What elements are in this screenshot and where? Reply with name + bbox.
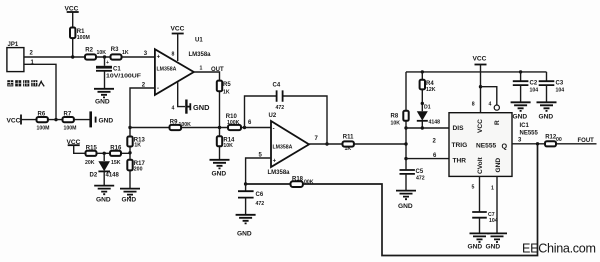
diode D1 4148 [417, 105, 440, 128]
svg-text:-: - [157, 86, 159, 92]
svg-text:C6: C6 [256, 192, 264, 198]
svg-text:104: 104 [556, 88, 565, 94]
svg-text:12K: 12K [426, 87, 436, 93]
resistor R2 [85, 48, 106, 60]
svg-text:472: 472 [256, 201, 265, 207]
svg-text:GND: GND [468, 244, 483, 251]
capacitor C7 103 [472, 212, 498, 233]
wire: Q output to FOUT [512, 143, 597, 145]
node: R5/R14 junction [218, 126, 221, 129]
svg-text:4148: 4148 [106, 173, 120, 179]
svg-text:15K: 15K [111, 160, 121, 166]
svg-text:GND: GND [193, 103, 210, 112]
svg-text:GND: GND [96, 197, 111, 204]
wire: R13/R17 rail [129, 128, 131, 189]
op-amp U1 LM358A [155, 38, 211, 95]
ground (C7) [470, 233, 490, 242]
svg-text:C5: C5 [416, 169, 424, 175]
svg-text:R1: R1 [77, 29, 85, 35]
svg-text:GND: GND [95, 99, 110, 106]
power VCC (555) [473, 56, 487, 65]
svg-text:R6: R6 [38, 111, 46, 117]
svg-text:R18: R18 [292, 177, 304, 183]
svg-text:LM358a: LM358a [189, 52, 212, 58]
node: THR junction on rail [404, 157, 407, 160]
svg-text:C3: C3 [556, 80, 564, 86]
resistor R11 [343, 134, 355, 152]
svg-text:R7: R7 [64, 111, 72, 117]
wire: JP1 pin2 to R2/R3 row to U1 pin3 [24, 56, 155, 58]
wire: mid row pin2 node to U2 pin6 [130, 127, 271, 129]
wire: U1 pin2 to mid row [130, 88, 155, 128]
wire: JP1 pin1 down to R6/R7 row [24, 64, 56, 119]
svg-text:NE555: NE555 [520, 131, 539, 137]
resistor R8 [391, 111, 409, 127]
node: pin5/C6 junction [244, 182, 247, 185]
node: pin1 junction [54, 118, 57, 121]
svg-text:1K: 1K [122, 50, 129, 56]
svg-text:U1: U1 [195, 38, 203, 44]
node: DIS junction on rail [404, 126, 407, 129]
svg-text:Q: Q [502, 142, 508, 151]
svg-text:200: 200 [134, 166, 143, 172]
ground (R17) [120, 189, 140, 204]
power VCC (R15 row) [67, 139, 81, 146]
power VCC (U1 pin 8) [171, 26, 185, 34]
char 入 [39, 81, 45, 87]
svg-text:4: 4 [489, 102, 492, 108]
capacitor C6 472 [238, 184, 264, 215]
svg-text:C1: C1 [113, 67, 121, 73]
diode D2 4148 [90, 153, 120, 185]
svg-text:VCC: VCC [7, 117, 21, 124]
svg-text:00K: 00K [304, 179, 314, 185]
wire: feedback row to bottom loop up to 555 output [246, 144, 538, 256]
wire: C4 feedback loop [245, 96, 328, 144]
capacitor C1 (polarized 10V/100UF) [96, 57, 141, 89]
resistor R9 [170, 120, 192, 131]
wire: VCC to 555 pin8 [480, 65, 482, 113]
resistor R13 [127, 137, 145, 149]
svg-text:GND: GND [398, 203, 413, 210]
svg-text:10K: 10K [391, 121, 401, 127]
wire: VCC rail above 555 [406, 71, 547, 73]
node: C1 junction [103, 55, 106, 58]
svg-text:4148: 4148 [429, 119, 441, 125]
svg-text:472: 472 [276, 105, 285, 111]
capacitor C5 472 [400, 169, 425, 190]
svg-text:00: 00 [556, 137, 562, 143]
svg-text:-: - [273, 127, 275, 133]
svg-text:10V/100UF: 10V/100UF [106, 74, 141, 80]
svg-text:10K: 10K [223, 143, 233, 149]
svg-text:GND: GND [539, 113, 554, 120]
ground (U1 pin4, bar style) [186, 100, 210, 114]
svg-text:C2: C2 [530, 80, 538, 86]
node: reset branch junction [479, 85, 482, 88]
wire: reset branch to pin4 bubble [481, 87, 497, 105]
IC1 NE555 body [449, 113, 512, 177]
svg-text:TRIG: TRIG [452, 142, 468, 149]
svg-text:DIS: DIS [453, 125, 465, 132]
svg-text:GND: GND [495, 158, 502, 173]
node: feedback junction on Q line [536, 142, 539, 145]
IC1 designator labels [520, 123, 539, 137]
svg-text:20K: 20K [85, 160, 95, 166]
NE555 pin 4 bubble [494, 105, 499, 110]
power VCC (bottom left row) [7, 115, 22, 125]
svg-text:LM358a: LM358a [268, 170, 291, 176]
resistor R12 [545, 135, 562, 147]
resistor R6 [37, 111, 50, 131]
wire: DIS line [406, 127, 449, 129]
ground (R14) [210, 160, 230, 178]
ground (C3) [537, 102, 557, 120]
wire: 555 pin5 to C7 [479, 176, 481, 211]
svg-text:R11: R11 [343, 134, 354, 140]
node: R13/R17/R16 junction [128, 151, 131, 154]
ground (pin1) [487, 233, 507, 242]
node: D1/DIS junction [421, 126, 424, 129]
resistor R1 [70, 28, 90, 42]
wire: VCC R6 R7 GND row [21, 119, 90, 121]
svg-text:100K: 100K [227, 120, 240, 126]
svg-text:GND: GND [99, 118, 114, 125]
ground (D2) [94, 186, 114, 204]
resistor R5 [217, 81, 232, 96]
resistor R17 [127, 160, 145, 173]
svg-text:GND: GND [486, 244, 501, 251]
node: rail top junction [128, 126, 131, 129]
ground (C6) [236, 215, 256, 238]
wire: U1 output to R5 rail [194, 72, 220, 128]
svg-text:EEChina.com: EEChina.com [522, 242, 596, 256]
wire: VCC to U1 pin8 [177, 34, 179, 62]
svg-text:D2: D2 [90, 173, 98, 179]
svg-text:C4: C4 [273, 83, 281, 89]
svg-text:8: 8 [172, 52, 175, 58]
svg-text:VCC: VCC [171, 26, 185, 33]
svg-text:104: 104 [530, 88, 539, 94]
svg-text:LM358A: LM358A [157, 67, 177, 73]
resistor R7 [63, 111, 77, 131]
capacitor C2 104 [513, 72, 538, 102]
svg-text:100M: 100M [64, 125, 77, 131]
svg-text:R9: R9 [170, 120, 178, 126]
svg-text:GND: GND [237, 231, 252, 238]
resistor R18 100K [291, 177, 314, 187]
svg-text:+: + [157, 55, 161, 61]
svg-text:1K: 1K [345, 146, 352, 152]
node: R4/D1 junction [421, 102, 424, 105]
svg-text:+: + [273, 159, 277, 165]
svg-text:R3: R3 [111, 47, 119, 53]
svg-text:1K: 1K [134, 143, 141, 149]
ground (C2) [511, 102, 531, 120]
connector JP1 [7, 42, 24, 72]
svg-text:GND: GND [212, 170, 227, 177]
node: R1 bottom junction [71, 55, 74, 58]
svg-text:GND: GND [122, 197, 137, 204]
svg-text:R2: R2 [85, 48, 93, 54]
svg-text:4: 4 [172, 106, 175, 112]
resistor R10 [226, 114, 241, 130]
svg-text:472: 472 [416, 176, 425, 182]
node: C4 right to output junction [325, 142, 328, 145]
svg-text:1: 1 [491, 186, 494, 192]
svg-text:1K: 1K [223, 90, 230, 96]
capacitor C3 104 [539, 72, 565, 102]
wire: THR line [406, 158, 449, 160]
svg-text:R16: R16 [110, 146, 122, 152]
node: C2 junction on VCC rail [519, 70, 522, 73]
node: D2 junction [103, 152, 106, 155]
svg-text:JP1: JP1 [8, 42, 19, 48]
node: R4 top junction [421, 70, 424, 73]
resistor R3 [111, 47, 129, 60]
label 热电偶输入 (thermocouple input, simulated strokes) [7, 80, 44, 86]
svg-text:FOUT: FOUT [578, 138, 595, 144]
capacitor C4 472 [273, 83, 285, 112]
wire: 555 pin1 to ground [496, 176, 498, 233]
wire: U2 output to 555 rail [309, 143, 406, 145]
svg-text:GND: GND [513, 113, 528, 120]
svg-text:IC1: IC1 [520, 123, 530, 129]
svg-text:10K: 10K [97, 50, 107, 56]
svg-text:THR: THR [453, 158, 467, 165]
svg-text:R15: R15 [86, 146, 98, 152]
node: C4 left junction [243, 126, 246, 129]
svg-text:+: + [106, 60, 109, 66]
svg-text:100M: 100M [77, 35, 90, 41]
svg-text:R: R [494, 120, 501, 125]
svg-text:100M: 100M [37, 125, 50, 131]
svg-text:LM358A: LM358A [273, 145, 293, 151]
svg-text:VCC: VCC [473, 56, 487, 63]
ground (C5) [396, 191, 416, 210]
svg-text:NE555: NE555 [476, 143, 496, 150]
ground (C1) [94, 89, 114, 106]
svg-text:VCC: VCC [477, 119, 484, 133]
svg-text:R8: R8 [391, 114, 399, 120]
svg-text:100K: 100K [179, 122, 192, 128]
resistor R15 [85, 146, 97, 166]
wire: 555 left rail (R8/C5 chain) [405, 72, 407, 169]
wire: U2 pin5 to feedback row [246, 158, 271, 184]
resistor R4 [420, 72, 436, 111]
power VCC (top left) [65, 6, 79, 13]
svg-text:CVolt: CVolt [477, 156, 484, 174]
svg-text:5: 5 [472, 185, 475, 191]
svg-text:1: 1 [200, 66, 203, 72]
ground (right of R7, bar style) [91, 111, 114, 127]
node: TRIG junction on rail [404, 142, 407, 145]
wire: VCC to R15 R16 row [74, 145, 130, 153]
wire: U1 pin4 to GND [178, 82, 185, 107]
resistor R14 [217, 128, 235, 160]
ground labels under 555 [468, 244, 501, 251]
wire: VCC to R1 to main node [72, 12, 74, 57]
svg-text:8: 8 [472, 102, 475, 108]
op-amp U2 LM358a [268, 113, 310, 176]
svg-text:U2: U2 [269, 113, 277, 119]
svg-text:D1: D1 [424, 105, 431, 111]
svg-text:R5: R5 [223, 82, 231, 88]
resistor R16 [110, 146, 122, 166]
